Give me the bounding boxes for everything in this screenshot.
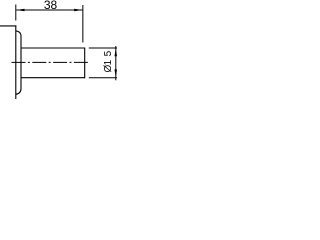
shaft right end face (84, 48, 86, 79)
extension line bottom of diameter dimension (89, 77, 117, 79)
shaft top edge (21, 47, 85, 49)
extension line right (shaft end) (82, 5, 84, 43)
arrowhead right of 38 dimension (74, 9, 82, 12)
flange top edge (0, 25, 16, 27)
flange right face (15, 25, 17, 99)
extension line top of diameter dimension (89, 47, 117, 49)
arrowhead left of 38 dimension (16, 9, 24, 12)
svg-text:1: 1 (103, 59, 114, 65)
svg-text:Ø: Ø (103, 64, 114, 72)
centerline dash-dot (12, 61, 90, 63)
extension line left (flange face) (15, 5, 17, 21)
boss contour with rounded shoulders (16, 31, 21, 94)
arrowhead top of diameter dimension (115, 48, 118, 56)
arrowhead bottom of diameter dimension (115, 69, 118, 77)
background (0, 0, 117, 99)
dimension line 38 (16, 9, 82, 11)
svg-text:5: 5 (103, 50, 114, 56)
dimension line diameter 15 (115, 46, 117, 80)
shaft bottom edge (21, 77, 85, 79)
